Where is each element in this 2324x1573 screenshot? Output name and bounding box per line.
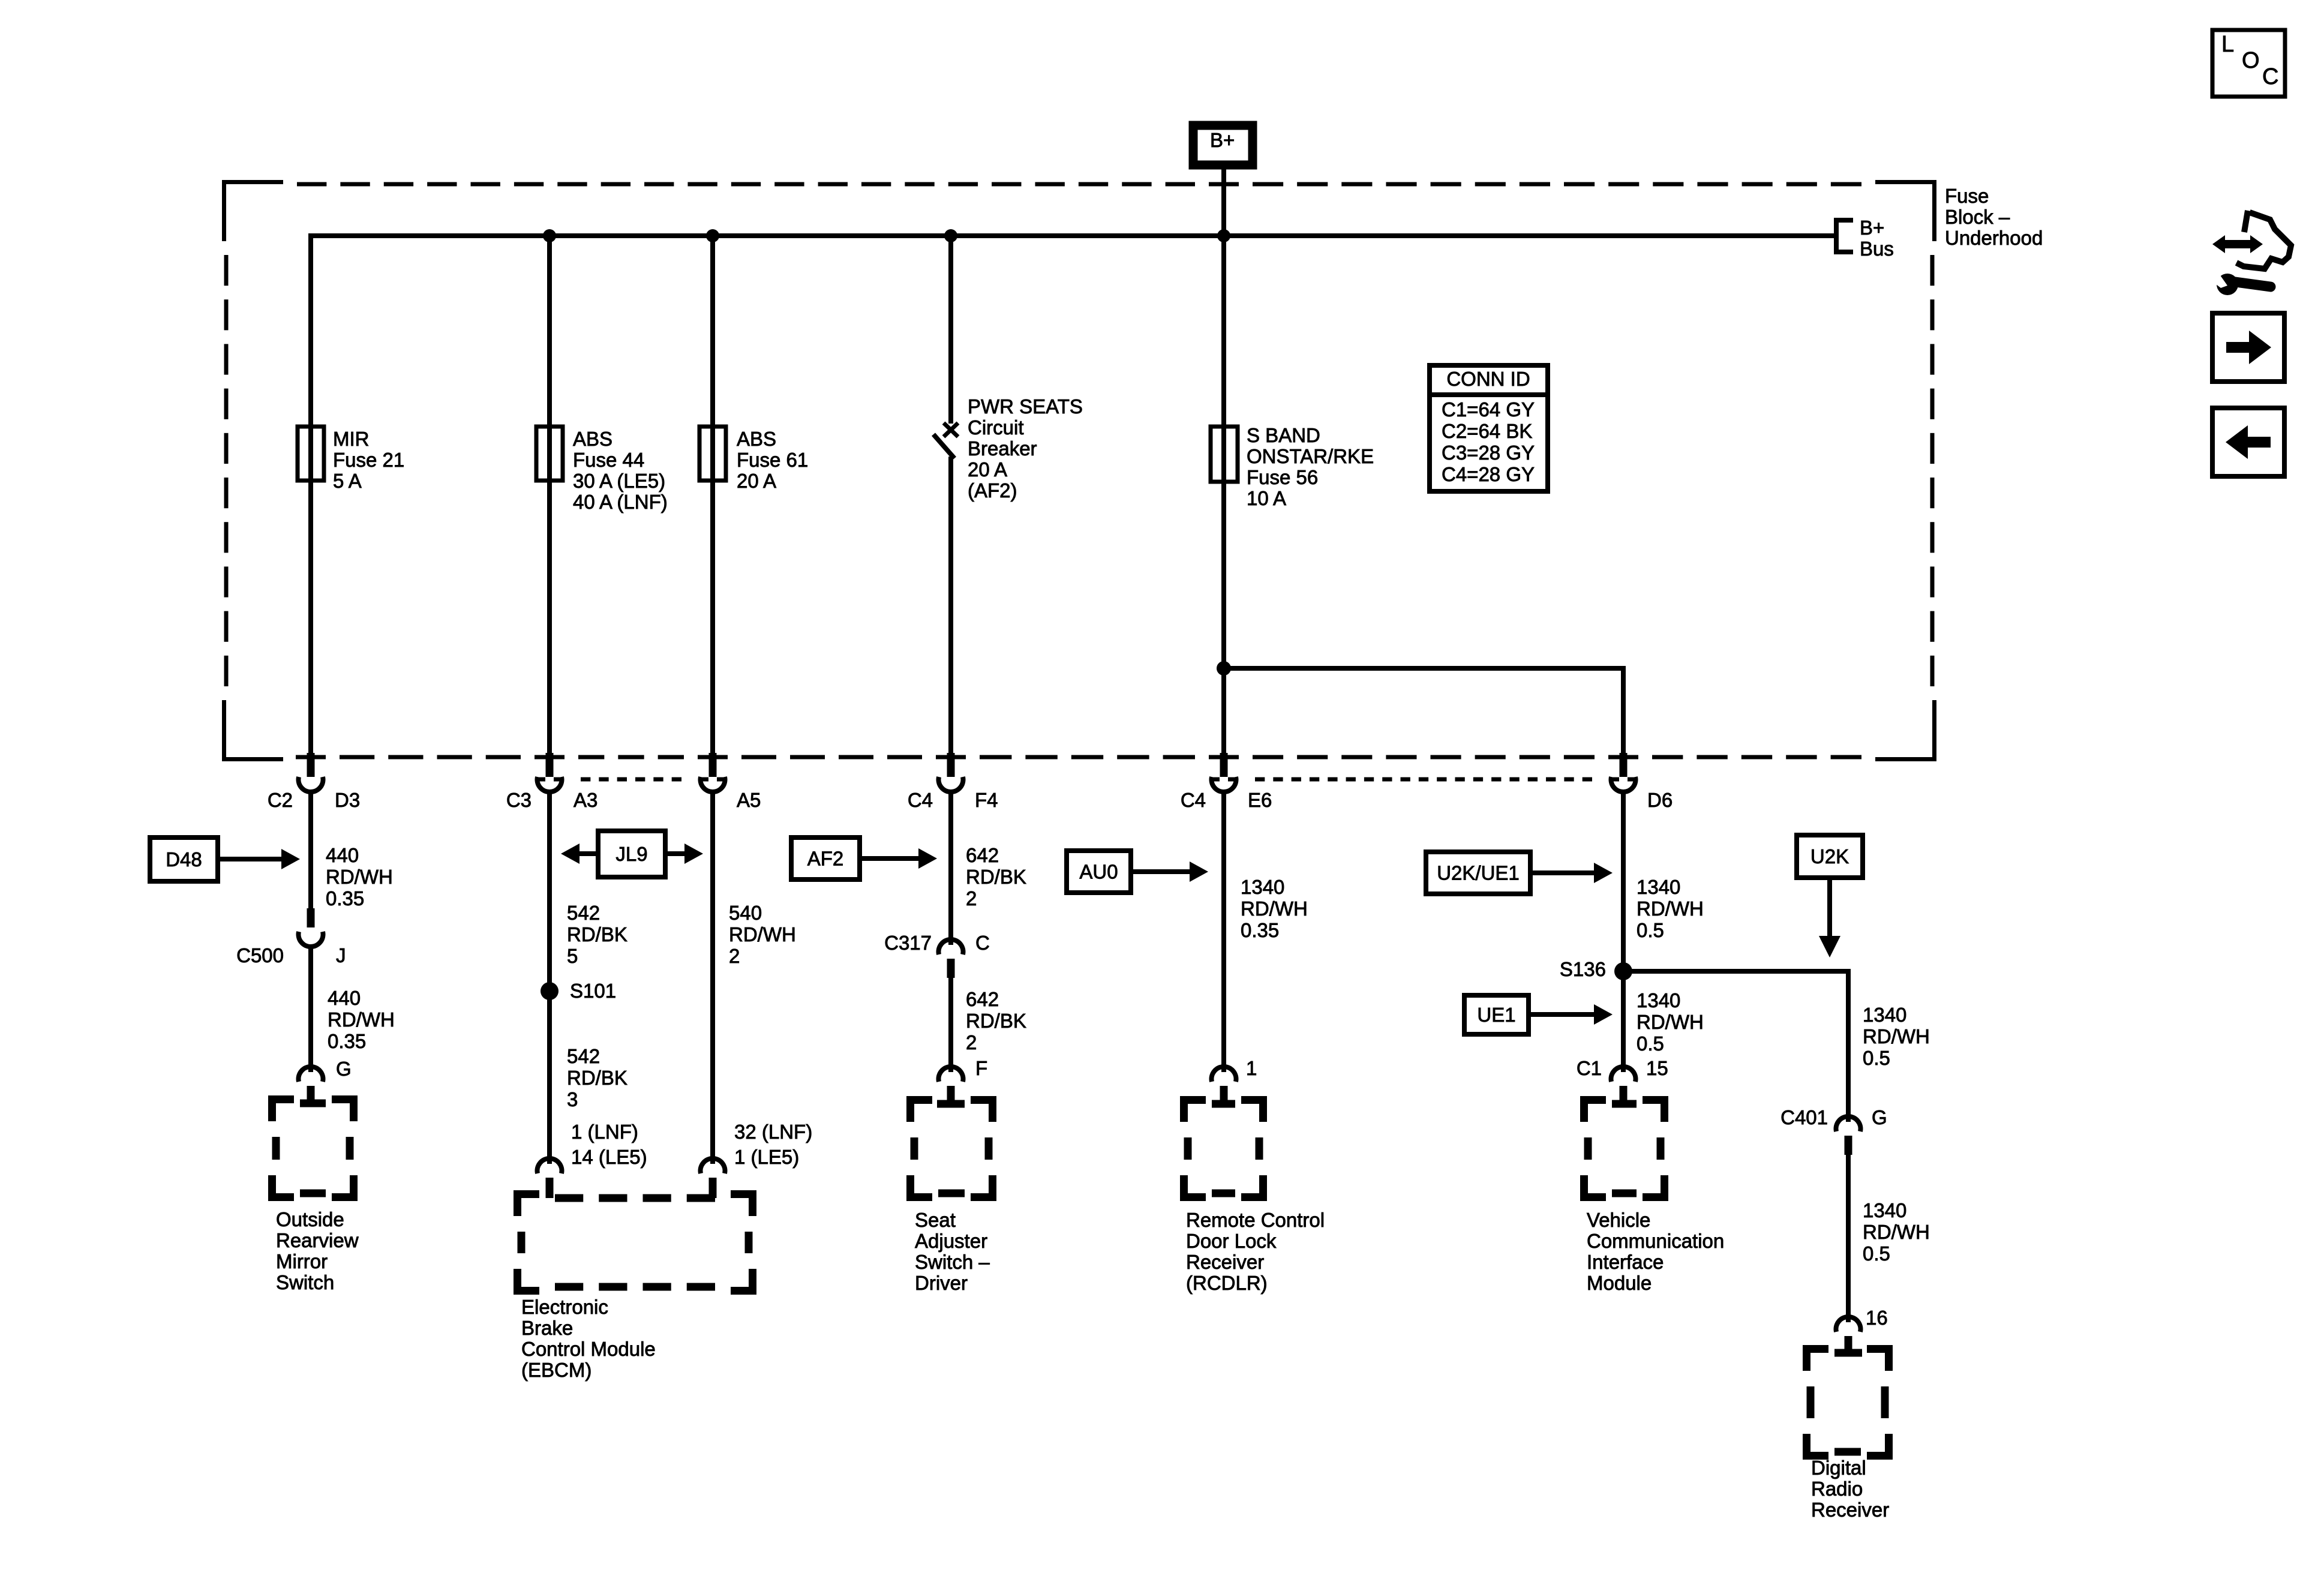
seat adjuster switch label	[915, 1209, 990, 1294]
wire A5 to EBCM	[710, 792, 715, 1164]
svg-text:F4: F4	[975, 789, 998, 811]
connector C500 pin stub	[307, 908, 315, 927]
arrow AU0 to wire	[1131, 861, 1208, 882]
svg-text:Control Module: Control Module	[521, 1338, 656, 1360]
svg-text:0.5: 0.5	[1863, 1047, 1890, 1069]
svg-text:C4: C4	[908, 789, 933, 811]
svg-text:Fuse 44: Fuse 44	[573, 449, 644, 471]
svg-text:U2K: U2K	[1810, 845, 1849, 867]
svg-text:C500: C500	[236, 944, 284, 966]
outside rearview mirror switch label	[276, 1208, 359, 1293]
pin stub into RCDLR	[1220, 1086, 1228, 1104]
B+ bus bracket terminal	[1834, 218, 1853, 254]
connector dome at EBCM pin 1/14	[538, 1158, 562, 1173]
svg-text:RD/BK: RD/BK	[966, 1010, 1026, 1032]
svg-text:540: 540	[729, 902, 762, 924]
ABS fuse 61 label	[737, 428, 808, 492]
pin stub into VCIM	[1620, 1086, 1628, 1104]
connector cup A5	[700, 777, 725, 792]
svg-text:A5: A5	[737, 789, 761, 811]
connector label C2	[268, 789, 293, 811]
svg-text:1 (LE5): 1 (LE5)	[734, 1146, 799, 1168]
wire C3 to splice S101	[547, 792, 552, 991]
dashed connector link E6-D6	[1209, 778, 1638, 782]
svg-text:Receiver: Receiver	[1186, 1251, 1264, 1273]
wire S-band fuse to connector C4/E6	[1221, 482, 1226, 758]
fuse block - underhood dashed boundary box	[224, 182, 1935, 760]
reference flag U2K	[1797, 835, 1863, 878]
arrow JL9 right	[665, 843, 703, 864]
svg-text:B+: B+	[1860, 217, 1884, 239]
connector pin label D3	[335, 789, 360, 811]
svg-text:C4=28 GY: C4=28 GY	[1442, 463, 1535, 485]
svg-text:RD/WH: RD/WH	[1863, 1221, 1930, 1243]
wire through S-band fuse body	[1221, 427, 1226, 482]
svg-text:ABS: ABS	[737, 428, 776, 450]
svg-text:RD/WH: RD/WH	[1637, 897, 1704, 920]
svg-text:Rearview: Rearview	[276, 1229, 359, 1251]
svg-text:F: F	[975, 1057, 987, 1079]
svg-text:Fuse: Fuse	[1945, 185, 1989, 207]
svg-text:Block –: Block –	[1945, 206, 2010, 228]
svg-text:S BAND: S BAND	[1247, 424, 1320, 446]
wire label 542 RD/BK 3	[567, 1045, 627, 1110]
pin label 1 (LE5)	[734, 1146, 799, 1168]
wire E6 to RCDLR	[1221, 792, 1226, 1072]
connector pin label E6	[1248, 789, 1272, 811]
EBCM box	[518, 1194, 753, 1291]
svg-text:C1: C1	[1577, 1057, 1602, 1079]
pin label 15	[1646, 1057, 1668, 1079]
svg-text:1340: 1340	[1863, 1004, 1906, 1026]
wire through MIR fuse body	[308, 427, 313, 481]
branch wire S136 to C401 corner	[1623, 971, 1848, 1122]
connector pin label F4	[975, 789, 998, 811]
connector cup D6	[1611, 777, 1636, 792]
svg-text:Outside: Outside	[276, 1208, 344, 1230]
wire label 542 RD/BK 5	[567, 902, 627, 967]
svg-text:RD/WH: RD/WH	[326, 866, 393, 888]
connector pin stub D6	[1620, 753, 1628, 777]
connector dome at VCIM	[1611, 1067, 1635, 1082]
splice S101	[541, 982, 559, 1000]
connector label C3	[506, 789, 532, 811]
svg-text:1340: 1340	[1637, 876, 1680, 898]
svg-text:RD/WH: RD/WH	[729, 923, 796, 945]
circuit breaker CB20 contact cross	[944, 423, 958, 437]
splice label S101	[570, 980, 616, 1002]
svg-text:D3: D3	[335, 789, 360, 811]
reference flag UE1	[1464, 995, 1529, 1034]
svg-text:Breaker: Breaker	[968, 437, 1037, 460]
wire label 642 RD/BK 2 upper	[966, 844, 1026, 909]
svg-text:30 A (LE5): 30 A (LE5)	[573, 470, 665, 492]
reference flag D48	[150, 837, 218, 881]
svg-text:O: O	[2242, 48, 2260, 73]
svg-text:32 (LNF): 32 (LNF)	[734, 1121, 812, 1143]
wire C500 to mirror switch	[308, 947, 313, 1072]
svg-text:Seat: Seat	[915, 1209, 956, 1231]
svg-text:Radio: Radio	[1811, 1478, 1863, 1500]
svg-text:G: G	[1872, 1106, 1887, 1128]
svg-text:440: 440	[326, 844, 359, 866]
connector label C317	[884, 932, 932, 954]
svg-text:20 A: 20 A	[737, 470, 776, 492]
circuit breaker CB20 blade	[933, 434, 954, 458]
wire label 440 RD/WH 0.35 upper	[326, 844, 393, 909]
pin stub into EBCM left	[546, 1178, 554, 1198]
svg-text:A3: A3	[574, 789, 597, 811]
branch wire to D6	[1224, 668, 1623, 758]
svg-text:Remote Control: Remote Control	[1186, 1209, 1325, 1231]
svg-text:RD/BK: RD/BK	[567, 1067, 627, 1089]
svg-text:L: L	[2221, 32, 2234, 57]
fuse F56 S BAND ONSTAR/RKE	[1211, 427, 1238, 482]
svg-text:0.35: 0.35	[326, 887, 364, 909]
svg-text:C401: C401	[1780, 1106, 1828, 1128]
svg-text:(AF2): (AF2)	[968, 479, 1017, 502]
fuse F44 ABS	[536, 427, 563, 481]
svg-text:2: 2	[729, 945, 740, 967]
connector dome at digital radio receiver	[1836, 1317, 1861, 1332]
pin stub into seat adjuster switch	[947, 1086, 955, 1104]
wire ABS fuse 44 to connector C3	[547, 481, 552, 758]
svg-text:C2=64 BK: C2=64 BK	[1442, 420, 1532, 442]
wire C317 to seat adjuster switch	[948, 977, 953, 1072]
svg-text:14 (LE5): 14 (LE5)	[571, 1146, 647, 1168]
connector C401 dome	[1836, 1116, 1861, 1131]
svg-text:642: 642	[966, 988, 999, 1010]
wire S136 to VCIM	[1621, 971, 1626, 1072]
wire D6 to splice S136	[1621, 792, 1626, 971]
wire label 540 RD/WH 2	[729, 902, 796, 967]
MIR fuse 21 label	[333, 428, 404, 492]
PWR SEATS circuit breaker label	[968, 395, 1083, 502]
svg-text:1340: 1340	[1637, 989, 1680, 1011]
svg-text:440: 440	[328, 987, 361, 1009]
junction dot bus/ABS fuse 44 wire	[543, 229, 556, 242]
svg-text:(RCDLR): (RCDLR)	[1186, 1272, 1268, 1294]
connector pin stub F4	[947, 753, 955, 777]
terminal label G	[336, 1058, 352, 1080]
connector pin stub D3	[307, 753, 315, 777]
splice S136	[1614, 962, 1632, 980]
splice label S136	[1560, 958, 1606, 980]
junction dot bus/S-band fuse wire	[1217, 229, 1230, 242]
connector pin stub E6	[1220, 753, 1228, 777]
svg-text:UE1: UE1	[1477, 1004, 1515, 1026]
svg-text:ONSTAR/RKE: ONSTAR/RKE	[1247, 445, 1374, 467]
svg-text:JL9: JL9	[615, 843, 647, 865]
svg-text:(EBCM): (EBCM)	[521, 1359, 591, 1381]
svg-text:1340: 1340	[1863, 1199, 1906, 1221]
svg-text:RD/WH: RD/WH	[1863, 1025, 1930, 1047]
junction dot bus/circuit breaker wire	[944, 229, 957, 242]
svg-text:E6: E6	[1248, 789, 1272, 811]
svg-text:0.5: 0.5	[1863, 1242, 1890, 1265]
wire ABS fuse 61 to connector A5	[710, 481, 715, 758]
dashed connector link C3-A5	[535, 778, 727, 782]
svg-text:S136: S136	[1560, 958, 1606, 980]
wire bus to ABS fuse 44	[547, 236, 552, 429]
arrow D48 to wire	[218, 849, 300, 869]
terminal label C	[975, 932, 990, 954]
svg-text:C3: C3	[506, 789, 532, 811]
svg-text:2: 2	[966, 1031, 977, 1053]
svg-text:5: 5	[567, 945, 578, 967]
svg-text:0.5: 0.5	[1637, 1032, 1664, 1055]
svg-text:Interface: Interface	[1587, 1251, 1664, 1273]
svg-text:642: 642	[966, 844, 999, 866]
fuse block label text	[1945, 185, 2043, 249]
RCDLR box	[1184, 1100, 1263, 1197]
svg-text:1 (LNF): 1 (LNF)	[571, 1121, 638, 1143]
svg-text:U2K/UE1: U2K/UE1	[1437, 862, 1520, 884]
svg-text:Fuse 56: Fuse 56	[1247, 466, 1318, 488]
svg-text:Driver: Driver	[915, 1272, 968, 1294]
wire label 440 RD/WH 0.35 lower	[328, 987, 395, 1052]
backward hotlink box	[2212, 408, 2284, 476]
terminal label J	[336, 944, 346, 966]
wire circuit breaker to connector C4/F4	[948, 457, 953, 758]
wire label 1340 RD/WH 0.5 at S136	[1637, 989, 1704, 1055]
connector label C500	[236, 944, 284, 966]
svg-text:D48: D48	[166, 848, 202, 870]
svg-text:Digital: Digital	[1811, 1457, 1866, 1479]
svg-text:Switch –: Switch –	[915, 1251, 990, 1273]
outside rearview mirror switch box	[272, 1100, 354, 1197]
EBCM label	[521, 1296, 656, 1381]
svg-text:1340: 1340	[1241, 876, 1284, 898]
connector cup F4	[939, 777, 963, 792]
svg-text:Door Lock: Door Lock	[1186, 1230, 1277, 1252]
connector pin stub A5	[709, 753, 717, 777]
svg-text:Underhood: Underhood	[1945, 227, 2043, 249]
pin stub into digital radio receiver	[1845, 1336, 1852, 1355]
reference flag U2K/UE1	[1426, 852, 1530, 894]
svg-text:542: 542	[567, 1045, 600, 1067]
svg-text:10 A: 10 A	[1247, 487, 1286, 509]
forward hotlink box	[2212, 313, 2284, 382]
svg-text:40 A (LNF): 40 A (LNF)	[573, 491, 668, 513]
svg-text:15: 15	[1646, 1057, 1668, 1079]
svg-text:RD/WH: RD/WH	[1241, 897, 1308, 920]
VCIM box	[1584, 1100, 1665, 1197]
wire label 1340 RD/WH 0.5 upper	[1637, 876, 1704, 941]
RCDLR label	[1186, 1209, 1325, 1294]
CONN ID table	[1430, 365, 1548, 491]
B+ power feed box	[1193, 125, 1253, 165]
svg-text:RD/BK: RD/BK	[966, 866, 1026, 888]
terminal label G right	[1872, 1106, 1887, 1128]
wire label 1340 RD/WH 0.5 right lower	[1863, 1199, 1930, 1265]
wire from B+ box to bus	[1221, 169, 1226, 236]
connector pin label D6	[1647, 789, 1673, 811]
service icon wrench	[2208, 269, 2271, 295]
connector label C4	[908, 789, 933, 811]
arrow U2K/UE1 to wire	[1530, 863, 1613, 883]
pin label 1 RCDLR	[1246, 1057, 1257, 1079]
pin label 1 (LNF)	[571, 1121, 638, 1143]
connector cup E6	[1212, 777, 1236, 792]
digital radio receiver label	[1811, 1457, 1889, 1521]
wire label 642 RD/BK 2 lower	[966, 988, 1026, 1053]
svg-text:Fuse 61: Fuse 61	[737, 449, 808, 471]
svg-text:G: G	[336, 1058, 352, 1080]
reference flag AF2	[791, 837, 860, 879]
connector C401 pin stub	[1845, 1136, 1852, 1155]
VCIM label	[1587, 1209, 1724, 1294]
svg-text:Adjuster: Adjuster	[915, 1230, 987, 1252]
svg-text:Module: Module	[1587, 1272, 1652, 1294]
svg-text:B+: B+	[1210, 129, 1235, 151]
pin stub into EBCM right	[709, 1178, 717, 1198]
arrow AF2 to wire	[860, 848, 937, 869]
svg-text:Vehicle: Vehicle	[1587, 1209, 1650, 1231]
svg-text:Receiver: Receiver	[1811, 1499, 1889, 1521]
svg-text:16: 16	[1866, 1307, 1888, 1329]
terminal label F	[975, 1057, 987, 1079]
svg-text:2: 2	[966, 887, 977, 909]
S BAND fuse 56 label	[1247, 424, 1374, 509]
wire through ABS fuse 61 body	[710, 427, 715, 481]
connector label C401	[1780, 1106, 1828, 1128]
svg-text:C: C	[975, 932, 990, 954]
pin label 32 (LNF)	[734, 1121, 812, 1143]
svg-text:Fuse 21: Fuse 21	[333, 449, 404, 471]
wire label 1340 RD/WH 0.35	[1241, 876, 1308, 941]
svg-text:Circuit: Circuit	[968, 416, 1024, 439]
LOC hotlink box	[2212, 30, 2285, 97]
wire F4 to connector C317	[948, 792, 953, 945]
svg-text:0.35: 0.35	[328, 1030, 366, 1052]
connector pin label A3	[574, 789, 597, 811]
connector pin label A5	[737, 789, 761, 811]
svg-text:AU0: AU0	[1079, 861, 1118, 883]
service icon panel outline	[2236, 211, 2291, 269]
pin label 16	[1866, 1307, 1888, 1329]
svg-text:0.35: 0.35	[1241, 919, 1279, 941]
junction dot S-band wire / D6 branch	[1217, 661, 1231, 676]
svg-text:PWR SEATS: PWR SEATS	[968, 395, 1083, 418]
svg-text:RD/WH: RD/WH	[328, 1008, 395, 1031]
connector C500 cup	[299, 932, 323, 947]
svg-text:Communication: Communication	[1587, 1230, 1724, 1252]
svg-text:C1=64 GY: C1=64 GY	[1442, 398, 1535, 421]
wire S101 to EBCM	[547, 991, 552, 1164]
svg-text:RD/BK: RD/BK	[567, 923, 627, 945]
B+ bus horizontal wire	[311, 236, 1834, 429]
wire C2 to connector C500	[308, 792, 313, 909]
connector cup D3	[299, 777, 323, 792]
reference flag AU0	[1067, 851, 1131, 893]
connector dome at seat adjuster switch	[939, 1067, 963, 1082]
svg-text:Electronic: Electronic	[521, 1296, 608, 1318]
wire bus to S-band fuse 56	[1221, 236, 1226, 429]
arrow U2K down to branch wire	[1819, 878, 1840, 957]
wire label 1340 RD/WH 0.5 right upper	[1863, 1004, 1930, 1069]
svg-text:Brake: Brake	[521, 1317, 573, 1339]
svg-text:D6: D6	[1647, 789, 1673, 811]
svg-text:Bus: Bus	[1860, 238, 1894, 260]
B+ Bus label	[1860, 217, 1894, 260]
connector dome at EBCM pin 32/1	[701, 1158, 725, 1173]
arrow UE1 to wire	[1529, 1004, 1613, 1025]
pin label 14 (LE5)	[571, 1146, 647, 1168]
wire bus to circuit breaker	[948, 236, 953, 424]
svg-text:5 A: 5 A	[333, 470, 362, 492]
connector dome at mirror switch	[299, 1067, 323, 1082]
digital radio receiver box	[1807, 1349, 1889, 1456]
connector label C1	[1577, 1057, 1602, 1079]
pin stub into mirror switch	[307, 1086, 315, 1104]
svg-text:3: 3	[567, 1088, 578, 1110]
wire C401 to digital radio receiver	[1846, 1154, 1851, 1322]
connector C317 dome	[939, 939, 963, 954]
connector label C4	[1181, 789, 1206, 811]
svg-text:Mirror: Mirror	[276, 1250, 328, 1272]
fuse F21 MIR	[298, 427, 324, 481]
svg-text:542: 542	[567, 902, 600, 924]
svg-text:C3=28 GY: C3=28 GY	[1442, 442, 1535, 464]
svg-text:0.5: 0.5	[1637, 919, 1664, 941]
wire through ABS fuse 44 body	[547, 427, 552, 481]
fuse F61 ABS	[699, 427, 726, 481]
svg-text:RD/WH: RD/WH	[1637, 1011, 1704, 1033]
junction dot bus/ABS fuse 61 wire	[706, 229, 719, 242]
ABS fuse 44 label	[573, 428, 668, 513]
connector cup A3	[538, 777, 562, 792]
svg-text:CONN ID: CONN ID	[1446, 368, 1530, 390]
svg-text:J: J	[336, 944, 346, 966]
svg-text:1: 1	[1246, 1057, 1257, 1079]
svg-text:AF2: AF2	[807, 848, 844, 870]
connector C317 pin stub	[947, 959, 955, 978]
svg-text:S101: S101	[570, 980, 616, 1002]
connector dome at RCDLR	[1212, 1067, 1236, 1082]
arrow JL9 left	[561, 843, 598, 864]
svg-text:C2: C2	[268, 789, 293, 811]
reference flag JL9	[598, 831, 665, 877]
svg-text:C4: C4	[1181, 789, 1206, 811]
wire MIR fuse to connector C2	[308, 481, 313, 758]
svg-text:ABS: ABS	[573, 428, 612, 450]
seat adjuster switch box	[911, 1100, 993, 1197]
service icon double arrow	[2212, 235, 2263, 253]
svg-text:20 A: 20 A	[968, 458, 1007, 481]
svg-text:MIR: MIR	[333, 428, 370, 450]
connector pin stub A3	[546, 753, 554, 777]
wire bus to ABS fuse 61	[710, 236, 715, 429]
svg-text:C317: C317	[884, 932, 932, 954]
svg-text:Switch: Switch	[276, 1271, 334, 1293]
svg-text:C: C	[2262, 64, 2278, 89]
